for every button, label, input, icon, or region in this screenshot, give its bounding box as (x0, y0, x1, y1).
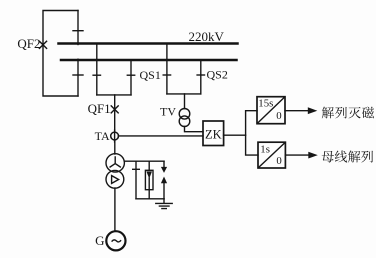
generator G circle (106, 231, 125, 250)
voltage transformer TV (two circles) (179, 109, 190, 120)
svg-text:0: 0 (276, 110, 281, 122)
wire: bus-tie right vertical lower (to busbar W2) (77, 59, 79, 96)
timer box 1s/0 (258, 142, 285, 168)
surge arrester F (box with arrow) (145, 161, 153, 199)
relay ZK box (203, 121, 224, 146)
svg-text:QF2: QF2 (17, 36, 40, 51)
wire: branch drop from busbar W1 (96, 44, 98, 95)
wire: bottom bus of grounding network (136, 198, 164, 200)
svg-text:15s: 15s (258, 97, 273, 109)
transformer T (wye winding circle) (106, 154, 124, 172)
wire: left branch vertical (135, 161, 137, 199)
wire: TV secondary to ZK (185, 127, 204, 132)
wire: stem to TV (184, 94, 186, 109)
wire: TV drop from busbar W1 (166, 44, 168, 94)
wire: transformer to generator (114, 188, 116, 231)
generator tilde (112, 240, 121, 242)
svg-text:220kV: 220kV (189, 29, 225, 44)
svg-text:G: G (95, 233, 104, 248)
wire: TA to transformer (114, 140, 116, 154)
svg-text:1s: 1s (260, 144, 270, 156)
svg-text:TA: TA (95, 129, 110, 143)
label 母线解列 (busbar splitting) (322, 150, 373, 162)
svg-text:QS1: QS1 (140, 68, 161, 82)
wire: split to timers (246, 111, 258, 155)
wire: join of TV drops (167, 93, 201, 95)
transformer T (delta winding circle) (106, 170, 124, 188)
wire: join of the two drops (97, 94, 131, 96)
busbar W2 (61, 59, 237, 62)
svg-text:QF1: QF1 (88, 101, 111, 116)
tick on left branch (133, 168, 140, 170)
disconnector QS2 tick (197, 74, 204, 76)
wire: bus-tie loop top/left/bottom (43, 11, 78, 97)
current transformer TA (circle on feeder) (114, 130, 116, 142)
disconnector tick (left TV drop) (163, 74, 170, 76)
busbar W1 (220kV) (59, 42, 238, 45)
disconnector QS1 tick (127, 74, 134, 76)
svg-text:TV: TV (160, 105, 176, 119)
label 解列灭磁 (de-excitation on splitting) (322, 107, 374, 119)
svg-text:0: 0 (276, 155, 281, 167)
disconnector tick (left drop) (93, 74, 100, 76)
svg-text:QS2: QS2 (207, 68, 228, 82)
breaker QF1 (X symbol) (111, 106, 118, 113)
svg-text:ZK: ZK (205, 128, 222, 142)
arrow: 1s output (285, 152, 317, 159)
wire: TV drop from busbar W2 (200, 60, 202, 94)
disconnector tick (upper, busbar W1 side) (73, 30, 83, 32)
spark gap (two facing triangles) (161, 161, 167, 199)
arrow: 15s output (285, 107, 317, 114)
wire: TA secondary to ZK (118, 135, 203, 137)
wire: branch drop from busbar W2 (130, 60, 132, 95)
wire: transformer tap to grounding network (124, 160, 164, 162)
wire: bus-tie right vertical upper (to busbar W1) (77, 11, 79, 45)
wire: feeder down to QF1 (114, 95, 116, 132)
breaker QF2 (X symbol) (39, 41, 46, 48)
timer box 15s/0 (257, 97, 285, 124)
ground (156, 199, 172, 209)
wire: ZK output (224, 134, 246, 136)
disconnector tick (lower, busbar W2 side) (73, 74, 83, 76)
